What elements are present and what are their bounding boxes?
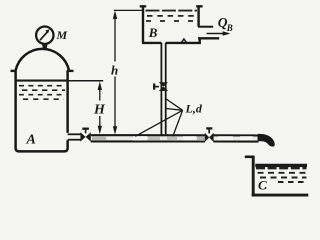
valve V1 at tank A outlet — [80, 132, 90, 141]
overflow jet arrow — [207, 33, 228, 35]
tank A left lug — [11, 70, 17, 72]
tank C walls — [252, 156, 309, 196]
pressure gauge M — [36, 27, 53, 49]
vertical pipe from tank B — [161, 43, 165, 136]
tank B bottom (right of pipe) — [166, 42, 201, 44]
svg-text:H: H — [93, 102, 106, 117]
svg-text:B: B — [226, 23, 233, 33]
svg-text:M: M — [56, 28, 68, 42]
tank A right lug — [67, 70, 74, 72]
tank A shell — [16, 71, 68, 152]
tank B wall below overflow — [198, 38, 200, 43]
pipe interior shading — [91, 136, 257, 140]
water dashes in tank A — [19, 86, 65, 100]
outlet stub from tank A — [68, 134, 81, 139]
svg-text:A: A — [26, 133, 36, 148]
tank A dome — [16, 49, 69, 71]
outlet spout (bent nozzle) — [258, 134, 275, 147]
dimension line H — [99, 90, 101, 127]
tank B bottom (left of pipe) — [142, 42, 162, 44]
valve V2 on horizontal pipe — [205, 133, 214, 142]
horizontal pipe L,d — [91, 135, 259, 141]
svg-text:C: C — [258, 177, 267, 192]
tank B overflow lower lip — [198, 37, 219, 39]
water in tank B — [146, 11, 198, 21]
svg-text:h: h — [111, 62, 118, 77]
svg-text:L,d: L,d — [185, 101, 203, 115]
tank C left lip — [245, 156, 255, 159]
small fitting mark on tank B bottom — [181, 39, 186, 42]
water surface in tank C — [255, 164, 307, 167]
tank B overflow upper lip — [198, 26, 213, 28]
dimension line h — [114, 10, 143, 127]
tank B right wall + lip — [196, 6, 202, 26]
tank B left wall + lip — [140, 6, 147, 43]
leader lines for L,d — [135, 99, 182, 136]
svg-text:B: B — [148, 25, 158, 40]
water level in tank A (extends right as H reference) — [17, 80, 69, 82]
water dashes in tank C — [258, 173, 307, 182]
valve V3 on vertical pipe — [159, 82, 168, 91]
